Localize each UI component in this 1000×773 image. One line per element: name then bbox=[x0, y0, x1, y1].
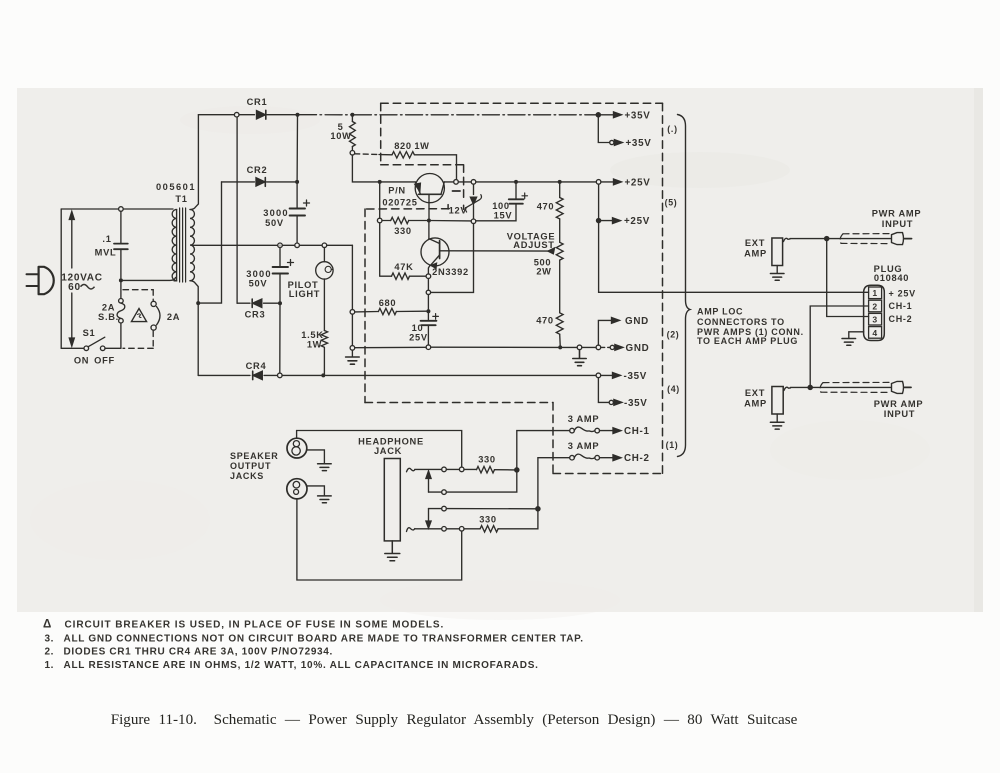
svg-text:CR4: CR4 bbox=[246, 361, 267, 371]
junction: +35V rail at 5 ohm top bbox=[350, 113, 354, 117]
svg-text:+25V: +25V bbox=[625, 177, 651, 188]
svg-text:4: 4 bbox=[872, 328, 877, 338]
svg-text:CR1: CR1 bbox=[247, 97, 268, 107]
svg-text:47K: 47K bbox=[394, 262, 413, 272]
wire: ext amp top to pwr amp input bbox=[790, 238, 891, 240]
wire: CR3 row bbox=[237, 302, 280, 304]
svg-text:25V: 25V bbox=[409, 332, 428, 342]
fuse F3 3 AMP (CH-2) bbox=[570, 454, 600, 460]
junction: pot chain bottom on gnd bus bbox=[558, 345, 562, 349]
wire: secondary top lead up to CR1 row bbox=[190, 115, 198, 210]
arrow: -35V output 1 bbox=[601, 373, 621, 379]
svg-text:CH-1: CH-1 bbox=[624, 426, 650, 437]
switch arm arrow row B up bbox=[426, 471, 431, 492]
capacitor C4 10/25V bbox=[421, 311, 439, 345]
node: CR4 output terminal bbox=[278, 373, 283, 378]
svg-text:S.B.: S.B. bbox=[98, 312, 119, 322]
pin 1 box bbox=[869, 287, 882, 299]
svg-text:330: 330 bbox=[394, 226, 412, 236]
switch contact row D (ring) bbox=[407, 527, 481, 532]
junction: CH-1 pickup bbox=[808, 385, 812, 389]
svg-text:SPEAKER: SPEAKER bbox=[230, 451, 278, 461]
wire: -35V node down to CR4 row bbox=[279, 303, 281, 373]
wire: Q2 base to voltage-adjust wiper bbox=[449, 250, 553, 252]
resistor R11 330 (CH-2) bbox=[480, 511, 538, 532]
wire: jack J1 to headphone switch row A bbox=[297, 431, 462, 468]
svg-text:T1: T1 bbox=[175, 194, 187, 204]
svg-text:AMP: AMP bbox=[744, 249, 767, 259]
wire: secondary center tap bbox=[192, 244, 353, 246]
node: GND bus right terminal bbox=[596, 345, 601, 350]
wire: secondary bottom lead down bbox=[190, 281, 198, 303]
transformer T1 005601 bbox=[172, 208, 194, 282]
svg-text:680: 680 bbox=[379, 298, 397, 308]
svg-text:+35V: +35V bbox=[626, 138, 652, 149]
resistor R6 470 (upper) bbox=[556, 180, 563, 242]
node: 330 row left terminal bbox=[377, 218, 382, 223]
wire: down to plug pin3 bbox=[827, 239, 869, 317]
ground: transformer center tap bbox=[346, 357, 360, 364]
wire: CR2 row bbox=[222, 181, 298, 183]
svg-text:15V: 15V bbox=[494, 211, 513, 221]
svg-text:OFF: OFF bbox=[94, 356, 115, 366]
node: center-tap row terminals bbox=[278, 243, 283, 248]
svg-text:3 AMP: 3 AMP bbox=[568, 441, 600, 451]
node: emitter junction on 292 row bbox=[426, 290, 430, 294]
svg-text:(.): (.) bbox=[667, 124, 677, 134]
resistor R9 470 (lower) bbox=[556, 313, 563, 346]
node: +25V take-off terminal bbox=[596, 180, 601, 185]
junction: Q1 base / Q2 collector node bbox=[427, 219, 431, 223]
ground: ext amp bottom bbox=[770, 422, 784, 429]
wire: CR1 row bbox=[198, 114, 297, 116]
svg-text:2A: 2A bbox=[102, 303, 115, 313]
potentiometer R8 500 2W voltage adjust bbox=[548, 242, 563, 312]
wire: Q1 base node column bbox=[379, 184, 381, 276]
wire+arrow: GND output 2 (dashed) bbox=[601, 346, 610, 348]
node: -35V output 2 terminal bbox=[609, 400, 613, 404]
svg-text:-35V: -35V bbox=[624, 371, 648, 382]
wire: Q1 emitter rail to +25V branch bbox=[444, 181, 596, 183]
pin 3 box bbox=[869, 313, 882, 325]
wire: AC loop left vertical bbox=[60, 209, 62, 348]
svg-text:60: 60 bbox=[68, 282, 81, 293]
wire: CH-1 fuse feed bbox=[517, 431, 570, 468]
svg-text:3000: 3000 bbox=[246, 269, 271, 279]
capacitor C3 100/15V bbox=[476, 182, 528, 221]
svg-text:EXT: EXT bbox=[745, 388, 765, 398]
wire: AC top wire to transformer primary bbox=[61, 208, 173, 210]
junction: 100/15V cap top on +25V rail bbox=[514, 180, 518, 184]
wire: -35V branch down bbox=[598, 378, 609, 403]
junction: CR1 cathode +35V node bbox=[296, 113, 300, 117]
svg-text:TO EACH AMP PLUG: TO EACH AMP PLUG bbox=[697, 336, 798, 346]
svg-text:010840: 010840 bbox=[874, 273, 909, 283]
resistor R2 820 1W bypass bbox=[355, 152, 459, 185]
capacitor C1 3000/50V (upper) bbox=[290, 200, 310, 216]
svg-text:10W: 10W bbox=[330, 131, 351, 141]
switch contact row B bbox=[429, 472, 517, 494]
svg-text:3.: 3. bbox=[45, 633, 55, 644]
cable shield dashes (bottom) bbox=[820, 382, 890, 392]
svg-text:PWR AMP: PWR AMP bbox=[874, 399, 924, 409]
svg-text:Figure 11-10. Schematic — Pow: Figure 11-10. Schematic — Power Supply R… bbox=[111, 712, 798, 728]
wire: primary bottom row bbox=[121, 278, 176, 281]
wire: up to plug pin2 bbox=[810, 306, 868, 387]
wire: plug pin4 to ground bbox=[849, 332, 864, 338]
pin 4 box bbox=[869, 327, 882, 339]
wire: +25V branch down to feed row bbox=[599, 184, 869, 292]
svg-text:2A: 2A bbox=[167, 312, 180, 322]
wire: Q2 collector bbox=[428, 221, 430, 239]
svg-text:INPUT: INPUT bbox=[884, 409, 915, 419]
arrow: -35V output 2 bbox=[614, 400, 622, 406]
wire: secondary bottom to CR2 row bbox=[198, 182, 221, 303]
transistor Q2 2N3392 bbox=[421, 238, 449, 274]
circuit breaker CB 2A (dashed alternate) bbox=[123, 290, 153, 349]
primary winding bbox=[174, 210, 177, 281]
svg-text:Δ: Δ bbox=[43, 619, 51, 631]
phone plug P3 (pwr amp input bottom) bbox=[892, 381, 912, 393]
svg-text:3 AMP: 3 AMP bbox=[568, 414, 600, 424]
svg-text:CH-2: CH-2 bbox=[889, 314, 913, 324]
label: SPEAKER OUTPUT JACKS bbox=[230, 451, 278, 481]
svg-text:+35V: +35V bbox=[625, 110, 651, 121]
resistor R1 5 10W bbox=[350, 115, 356, 155]
dashed circuit-board outline bbox=[365, 103, 663, 473]
svg-text:ALL GND CONNECTIONS NOT ON CIR: ALL GND CONNECTIONS NOT ON CIRCUIT BOARD… bbox=[64, 633, 584, 644]
svg-text:1: 1 bbox=[872, 288, 877, 298]
svg-text:.1: .1 bbox=[102, 234, 111, 244]
wire: rail into Q1 bbox=[380, 181, 416, 183]
svg-text:470: 470 bbox=[536, 316, 554, 326]
resistor R10 330 (CH-1) bbox=[477, 467, 515, 473]
footnote triangle marker (circuit breaker note) bbox=[131, 309, 146, 322]
EXT AMP jack J4 (top) bbox=[772, 238, 790, 273]
pin 2 box bbox=[869, 300, 882, 312]
wire: AC bottom wire to switch bbox=[61, 347, 84, 349]
svg-text:2N3392: 2N3392 bbox=[432, 267, 469, 277]
pilot light DS1 bbox=[316, 248, 333, 331]
wire: secondary bottom to CR4 row bbox=[197, 303, 199, 375]
arrow: GND output 1 bbox=[612, 318, 620, 324]
fuse F2 3 AMP (CH-1) bbox=[570, 427, 600, 433]
AC plug P1 bbox=[27, 267, 54, 294]
svg-text:020725: 020725 bbox=[382, 198, 417, 208]
fuse F1 2A S.B. bbox=[117, 282, 125, 348]
svg-text:50V: 50V bbox=[265, 218, 284, 228]
svg-text:P/N: P/N bbox=[388, 186, 406, 196]
node: -35V take-off terminal bbox=[596, 373, 601, 378]
arrow: +25V output 2 bbox=[601, 218, 621, 224]
wire: CR3 feed column from CR1 row bbox=[236, 117, 238, 303]
resistor R3 330 bbox=[382, 217, 427, 223]
diode CR3 bbox=[252, 299, 262, 307]
resistor R5 680 bbox=[355, 308, 427, 314]
svg-text:50V: 50V bbox=[249, 279, 268, 289]
transistor Q1 P/N 020725 (pass) bbox=[415, 174, 445, 221]
svg-text:GND: GND bbox=[626, 343, 650, 354]
wire: +35V branch down bbox=[598, 115, 609, 143]
node: +35V output 2 terminal bbox=[610, 140, 614, 144]
svg-text:GND: GND bbox=[625, 316, 649, 327]
wire: ext amp bottom to pwr amp input bbox=[791, 386, 892, 388]
junction: CR3 output -35V node bbox=[278, 301, 282, 305]
secondary winding bbox=[190, 210, 194, 281]
wire+arrow: CH-2 output bbox=[600, 455, 622, 461]
svg-text:ADJUST: ADJUST bbox=[513, 240, 554, 250]
wire: gnd bus to GND terminal circle bbox=[582, 346, 596, 348]
svg-text:330: 330 bbox=[478, 455, 496, 465]
svg-text:JACK: JACK bbox=[374, 446, 402, 456]
ground: circuit board gnd symbol bbox=[573, 350, 586, 366]
node: gnd bus left terminal bbox=[350, 346, 355, 351]
wire: 5 ohm bottom down to Q1 emitter rail bbox=[352, 155, 377, 182]
svg-text:CH-1: CH-1 bbox=[889, 301, 913, 311]
wire: -35V rail to right bbox=[282, 374, 596, 376]
diode CR2 bbox=[256, 178, 265, 187]
diode CR4 bbox=[253, 371, 263, 379]
svg-text:PWR AMP: PWR AMP bbox=[872, 209, 922, 219]
node: 680 tap terminal bbox=[350, 310, 355, 315]
node: Q2 emitter / 47K terminal bbox=[426, 274, 431, 279]
svg-text:CH-2: CH-2 bbox=[624, 453, 650, 464]
svg-text:+25V: +25V bbox=[624, 216, 650, 227]
wire: CR4 row bbox=[198, 374, 277, 376]
junction: 1.5K bottom on -35V rail bbox=[321, 373, 325, 377]
capacitor .1 MVL bbox=[114, 207, 128, 278]
wire: CH-2 fuse feed bbox=[538, 458, 570, 507]
wire: gnd bus right segment bbox=[562, 346, 577, 348]
svg-text:LIGHT: LIGHT bbox=[289, 289, 320, 299]
switch S1 bbox=[84, 337, 121, 350]
resistor R7 1.5K 1W bbox=[321, 331, 327, 376]
node: chassis gnd terminal bbox=[577, 345, 582, 350]
ground: headphone jack bbox=[385, 541, 400, 561]
svg-text:JACKS: JACKS bbox=[230, 471, 264, 481]
junction: CR2 cathode joins +35V column bbox=[295, 180, 299, 184]
svg-text:005601: 005601 bbox=[156, 182, 196, 192]
switch contact row C bbox=[429, 506, 536, 511]
ground: jack J1 bbox=[318, 464, 332, 471]
svg-text:2W: 2W bbox=[536, 267, 551, 277]
svg-text:3: 3 bbox=[872, 315, 877, 325]
svg-text:1W: 1W bbox=[414, 141, 429, 151]
svg-text:12V: 12V bbox=[449, 206, 468, 216]
headphone jack J3 body bbox=[384, 459, 400, 541]
svg-text:AMP: AMP bbox=[744, 399, 767, 409]
brace: amp loc connectors bbox=[678, 115, 691, 457]
switch contact row A (tip) bbox=[407, 467, 477, 472]
arrow: +25V output 1 bbox=[601, 179, 622, 185]
svg-text:CONNECTORS TO: CONNECTORS TO bbox=[697, 317, 785, 327]
svg-text:DIODES CR1 THRU CR4 ARE 3A, 10: DIODES CR1 THRU CR4 ARE 3A, 100V P/NO729… bbox=[64, 647, 334, 658]
junction: 680 / 10-25V cap node bbox=[426, 309, 430, 313]
svg-text:S1: S1 bbox=[83, 328, 96, 338]
connector PLUG 010840 body bbox=[864, 285, 885, 340]
svg-text:MVL: MVL bbox=[95, 248, 117, 258]
zener VR1 12V bbox=[466, 180, 482, 224]
notes block bbox=[43, 619, 584, 671]
svg-text:CIRCUIT BREAKER IS USED, IN PL: CIRCUIT BREAKER IS USED, IN PLACE OF FUS… bbox=[65, 619, 445, 630]
svg-text:(2): (2) bbox=[667, 330, 680, 340]
resistor R4 47K bbox=[380, 273, 426, 279]
svg-text:1.: 1. bbox=[45, 660, 55, 671]
label: AMP LOC note bbox=[697, 307, 804, 346]
svg-text:330: 330 bbox=[479, 515, 497, 525]
svg-text:10: 10 bbox=[412, 323, 424, 333]
switch arm arrow row C down bbox=[426, 509, 431, 529]
core bbox=[180, 208, 186, 282]
svg-text:CR2: CR2 bbox=[247, 165, 268, 175]
arrow: +35V output 1 bbox=[600, 112, 621, 118]
junction: secondary bottom node bbox=[196, 301, 200, 305]
junction: CH-2 pickup bbox=[825, 237, 829, 241]
speaker output jack J1 bbox=[287, 431, 324, 464]
junction: Q1 left rail node bbox=[378, 180, 382, 184]
wire: ground bus bbox=[355, 346, 558, 349]
svg-text:ALL RESISTANCE ARE IN OHMS, 1/: ALL RESISTANCE ARE IN OHMS, 1/2 WATT, 10… bbox=[64, 660, 539, 671]
svg-text:1W: 1W bbox=[307, 340, 322, 350]
wire: emitter node down bbox=[427, 279, 429, 291]
svg-text:AMP LOC: AMP LOC bbox=[697, 307, 743, 317]
svg-text:(1): (1) bbox=[666, 440, 679, 450]
cable shield dashes (top) bbox=[840, 234, 890, 244]
svg-text:470: 470 bbox=[537, 202, 555, 212]
wire: GND branch up bbox=[598, 320, 611, 345]
node: cap bottom on gnd bus bbox=[426, 345, 431, 350]
ground: ext amp top bbox=[770, 274, 784, 281]
ground: jack J2 bbox=[318, 496, 332, 503]
junction: CH-1 feed node bbox=[515, 468, 519, 472]
svg-text:ON: ON bbox=[74, 356, 89, 366]
wire+arrow: CH-1 output bbox=[600, 428, 622, 434]
junction: CH-2 feed node bbox=[536, 507, 540, 511]
svg-text:1.5K: 1.5K bbox=[301, 330, 323, 340]
svg-text:EXT: EXT bbox=[745, 238, 765, 248]
EXT AMP jack J5 (bottom) bbox=[772, 387, 791, 422]
svg-text:2: 2 bbox=[872, 301, 877, 311]
wire: center tap to chassis ground column bbox=[351, 245, 353, 356]
120VAC dimension arrow bbox=[69, 212, 74, 347]
svg-text:820: 820 bbox=[394, 141, 412, 151]
svg-text:-35V: -35V bbox=[624, 398, 648, 409]
junction: MVL bottom / primary bottom bbox=[119, 278, 123, 282]
svg-text:(4): (4) bbox=[667, 384, 680, 394]
diode CR1 bbox=[257, 110, 266, 119]
svg-text:INPUT: INPUT bbox=[882, 219, 913, 229]
wire: +35V column through filter cap bbox=[296, 115, 298, 243]
ground: plug pin4 bbox=[842, 339, 856, 346]
svg-text:CR3: CR3 bbox=[245, 310, 266, 320]
speaker output jack J2 bbox=[287, 479, 462, 580]
wire: emitter junction down to 680/cap node bbox=[427, 295, 429, 312]
phone plug P2 (pwr amp input top) bbox=[892, 233, 912, 245]
node: CR1 row terminal circle bbox=[234, 112, 239, 117]
svg-text:100: 100 bbox=[492, 201, 510, 211]
arrow: +35V output 2 bbox=[614, 140, 622, 146]
wire: +35V rail dash-dot to output bbox=[300, 114, 597, 116]
capacitor C2 3000/50V (lower) bbox=[273, 245, 294, 301]
node: +35V take-off junction bbox=[596, 113, 600, 117]
svg-text:(5): (5) bbox=[665, 198, 678, 208]
wire: zener bottom node down to Q2 emitter row bbox=[431, 224, 474, 293]
svg-text:HEADPHONE: HEADPHONE bbox=[358, 437, 424, 447]
wire: 330 row to zener bottom bbox=[429, 220, 471, 222]
svg-text:+ 25V: + 25V bbox=[889, 289, 916, 299]
junction: +25V output 2 bbox=[597, 219, 601, 223]
svg-text:OUTPUT: OUTPUT bbox=[230, 461, 271, 471]
svg-text:2.: 2. bbox=[45, 647, 55, 658]
svg-text:3000: 3000 bbox=[263, 208, 288, 218]
